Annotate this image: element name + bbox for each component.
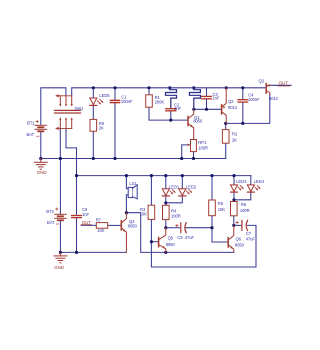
svg-text:Q2: Q2 (228, 99, 234, 104)
svg-text:R7: R7 (96, 217, 102, 222)
svg-text:100R: 100R (171, 213, 181, 218)
resistor R9 (90, 119, 97, 131)
resistor R2 (222, 130, 229, 144)
transistor Q4 (121, 213, 126, 253)
junction dots collector rail y123 (224, 122, 244, 125)
svg-text:BAT: BAT (27, 132, 35, 137)
svg-text:1nF: 1nF (212, 95, 219, 100)
battery BT2 (55, 208, 67, 224)
svg-text:100R: 100R (198, 145, 208, 150)
wire node comb2/Q1 collector to Q2 base (194, 108, 222, 110)
wire SW1 left pole to ground rail and BT2 (59, 128, 61, 158)
wire LED2 cathode join (166, 196, 183, 203)
svg-text:LED4: LED4 (254, 179, 265, 184)
svg-text:LED5: LED5 (99, 93, 110, 98)
svg-text:10K: 10K (218, 207, 225, 212)
underline of OUT left (81, 224, 91, 226)
wire R2 bottom to ground rail (225, 143, 227, 158)
svg-text:100R: 100R (240, 208, 250, 213)
wire LS1 bottom pin to Q4 collector node (126, 195, 128, 213)
switch SW1 (55, 95, 81, 130)
svg-text:C7: C7 (246, 231, 252, 236)
junction dots lower ground rail (59, 251, 168, 254)
resistor R4 (163, 205, 170, 219)
svg-text:Q6: Q6 (236, 237, 242, 242)
wire C4 bottom stub (242, 102, 244, 123)
wire R9 to ground rail (92, 131, 94, 158)
svg-text:100nF: 100nF (121, 99, 133, 104)
wire C1 bottom to ground rail (114, 103, 116, 159)
svg-text:GND: GND (37, 170, 48, 175)
capacitor C4 (238, 100, 248, 102)
LED LED3 (231, 185, 244, 192)
junction dots base wire y109 (192, 108, 208, 111)
svg-text:R2: R2 (232, 132, 238, 137)
wire LED3 cathode to R6 (233, 192, 235, 201)
wire BT1 bottom to ground (40, 132, 42, 159)
wire C5 right to R5 line (186, 227, 212, 229)
svg-text:100nF: 100nF (248, 97, 260, 102)
junction dots rail 2 (75, 174, 236, 177)
wire R4 bottom to C5 node (165, 220, 167, 228)
wire RP1 bottom to ground rail (193, 152, 195, 159)
wire C7 left (234, 224, 241, 226)
transistor Q1 (188, 109, 194, 139)
svg-text:47uF: 47uF (246, 236, 256, 241)
svg-text:10K: 10K (140, 212, 147, 217)
svg-text:BT1: BT1 (27, 120, 35, 125)
wire OUT net to R7 (81, 224, 96, 226)
svg-text:BAT: BAT (47, 220, 55, 225)
svg-text:LS1: LS1 (129, 181, 137, 186)
underline of OUT top right (278, 85, 290, 87)
junction dot R4 C5 Q5 collector node (164, 226, 167, 229)
resistor R7 (96, 223, 107, 229)
wire OUT net at Q3 emitter (270, 84, 291, 86)
wire LS1 top pin from rail (126, 176, 128, 189)
wire LED5 anode (92, 88, 94, 98)
junction dot C5 R5 node (210, 226, 213, 229)
wire R3 bottom through Q5 base node down to C7 return (151, 219, 256, 267)
wire lower ground rail left (60, 251, 126, 253)
LED LED4 (247, 185, 260, 192)
LED LED2 (179, 189, 192, 196)
resistor R3 (148, 205, 155, 219)
capacitor C1 (110, 100, 119, 102)
wire supply rail 2 (77, 175, 251, 177)
wire C6 bottom (76, 218, 78, 253)
wire R6 bottom to C7 node (233, 216, 235, 226)
svg-text:47uF: 47uF (185, 235, 195, 240)
svg-text:2K: 2K (99, 125, 104, 130)
capacitor C5 electrolytic (176, 223, 187, 233)
wire C1 top (114, 88, 116, 100)
capacitor C3 (202, 96, 212, 98)
svg-text:8050: 8050 (235, 243, 245, 248)
junction dot C2 node (169, 119, 172, 122)
wire C5 left (166, 227, 180, 229)
resistor R6 (231, 202, 238, 216)
svg-text:LED2: LED2 (186, 184, 197, 189)
svg-text:OUT: OUT (82, 220, 92, 225)
wire Q5 base stub (151, 241, 158, 243)
junction dots ground rail (39, 157, 195, 160)
wire C2 bottom stub (170, 111, 172, 120)
wire Q4 collector node to lower right rail (126, 213, 233, 253)
wire LED1 anode (165, 176, 167, 189)
svg-text:2K: 2K (232, 137, 237, 142)
touch sensor comb 1 (166, 88, 177, 108)
capacitor C2 (166, 109, 176, 111)
wire LED5 cathode to R9 (92, 106, 94, 120)
potentiometer RP1 (188, 139, 197, 151)
wire R2 top stub (225, 123, 227, 129)
wire LED3 anode (233, 176, 235, 185)
wire RP1 wiper to ground rail (182, 145, 191, 159)
svg-text:R5: R5 (218, 201, 224, 206)
junction dot LED1 LED2 cathodes (164, 201, 167, 204)
junction dots top rail (92, 86, 245, 89)
wire ground rail (41, 158, 226, 160)
wire R1 top (148, 88, 150, 95)
wire BT2 bottom to lower ground (59, 221, 61, 253)
junction dot LED3 LED4 cathodes (232, 198, 235, 201)
touch sensor comb 2 (189, 88, 200, 110)
junction dot R6 C7 Q6 collector node (232, 224, 235, 227)
LED LED5 (90, 98, 104, 105)
svg-text:BT2: BT2 (46, 209, 54, 214)
wire R5 top stub (211, 176, 213, 201)
wire battery BT1 positive to top rail corner (41, 88, 66, 125)
wire C3 top stub (206, 88, 208, 96)
wire top supply rail from SW1 to Q3 base (72, 88, 267, 96)
svg-text:LED1: LED1 (169, 184, 180, 189)
svg-text:1nF: 1nF (174, 106, 181, 111)
resistor R5 (209, 200, 216, 216)
wire LED4 anode from rail corner (250, 176, 252, 185)
svg-text:Q5: Q5 (168, 236, 174, 241)
wire BT2 top to ground rail (59, 159, 61, 214)
transistor Q2 (222, 88, 227, 124)
svg-text:R6: R6 (241, 202, 247, 207)
svg-text:Q3: Q3 (259, 79, 265, 84)
svg-text:8050: 8050 (166, 242, 176, 247)
wire C3 bottom stub (206, 99, 208, 109)
wire LED1 cathode to R4 (165, 196, 167, 205)
wire C4 top stub (242, 88, 244, 100)
wire R3 top stub (150, 176, 152, 206)
wire Q2 collector rail to Q3 collector (226, 95, 270, 124)
svg-text:200K: 200K (155, 100, 165, 105)
ground symbol GND upper (34, 159, 47, 170)
LED LED1 (162, 189, 175, 196)
speaker LS1 (128, 185, 137, 199)
svg-text:8050: 8050 (193, 118, 203, 123)
svg-text:LED3: LED3 (236, 179, 247, 184)
svg-text:OUT: OUT (279, 81, 289, 86)
svg-text:1nF: 1nF (82, 212, 89, 217)
capacitor C7 electrolytic (236, 220, 248, 230)
svg-text:10K: 10K (97, 228, 104, 233)
capacitor C6 (72, 216, 82, 218)
wire LED4 cathode join (234, 192, 251, 200)
resistor R1 (146, 95, 153, 107)
svg-text:GND: GND (54, 265, 65, 270)
wire LED2 anode (181, 176, 183, 189)
svg-text:9012: 9012 (269, 96, 279, 101)
transistor Q3 (266, 84, 270, 95)
svg-text:RP1: RP1 (198, 140, 207, 145)
battery BT1 (35, 120, 47, 136)
svg-text:8050: 8050 (128, 223, 138, 228)
junction dot Q5 base node (150, 240, 153, 243)
svg-text:9012: 9012 (228, 105, 238, 110)
svg-text:SW1: SW1 (75, 106, 85, 111)
junction dot Q4 collector node (125, 211, 128, 214)
ground symbol GND lower (54, 252, 67, 262)
svg-text:C5: C5 (177, 235, 183, 240)
wire R1 bottom to C2 node to Q1 base (149, 107, 188, 120)
transistor Q6 (228, 225, 234, 252)
wire SW1 bottom pole to rail jog (66, 128, 77, 175)
wire R5 bottom to Q6 base (212, 216, 228, 242)
wire C6 top (76, 176, 78, 216)
wire R7 to Q4 base (108, 224, 122, 226)
transistor Q5 (159, 228, 166, 253)
